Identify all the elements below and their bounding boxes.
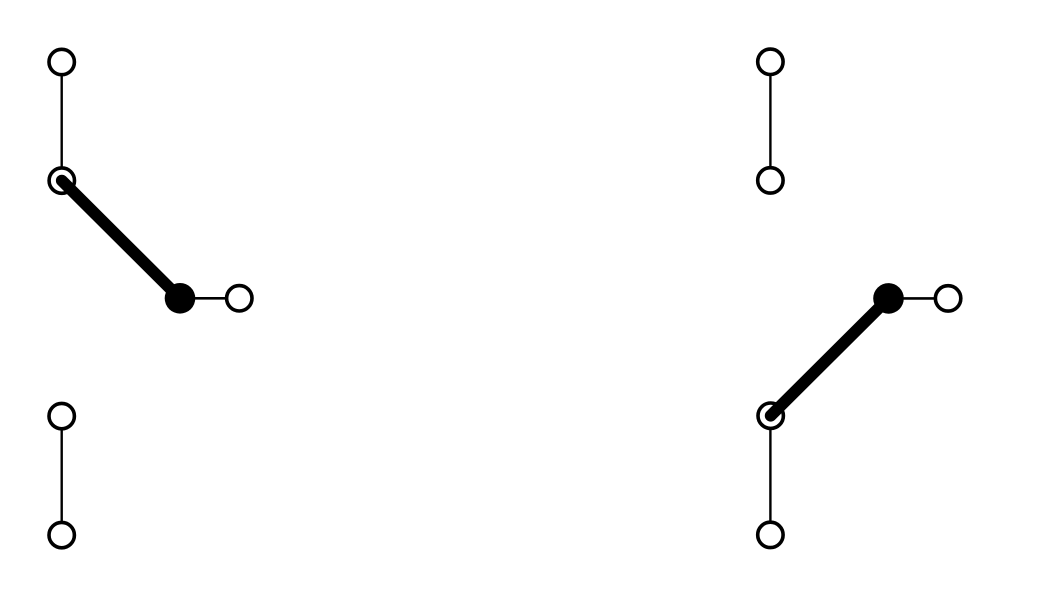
switch SW1 lower throw contact (49, 403, 74, 428)
switch SW2 upper throw wire (769, 62, 771, 181)
switch SW1 pole-to-terminal wire (180, 297, 239, 300)
switch SW1 upper throw wire (61, 62, 63, 181)
switch SW1 lower throw wire (61, 416, 63, 535)
switch SW1 terminal 2 (right) (227, 286, 252, 311)
switch SW2 lower throw contact (758, 403, 783, 428)
switch SW2 terminal 3 (bottom) (758, 522, 783, 547)
switch SW2 lever (closed to lower throw) (771, 298, 889, 415)
switch SW2 terminal 1 (top) (758, 49, 783, 74)
switch SW1 terminal 3 (bottom) (49, 522, 74, 547)
switch SW1 upper throw contact (49, 168, 74, 193)
switch SW2 pole-to-terminal wire (889, 297, 949, 300)
switch SW1 pole (filled node) (165, 283, 196, 314)
switch SW2 terminal 2 (right) (935, 286, 960, 311)
switch SW2 pole (filled node) (873, 283, 904, 314)
switch SW1 lever (closed to upper throw) (62, 181, 180, 299)
switch SW2 upper throw contact (758, 168, 783, 193)
switch SW2 lower throw wire (769, 416, 771, 535)
switch SW1 terminal 1 (top) (49, 49, 74, 74)
